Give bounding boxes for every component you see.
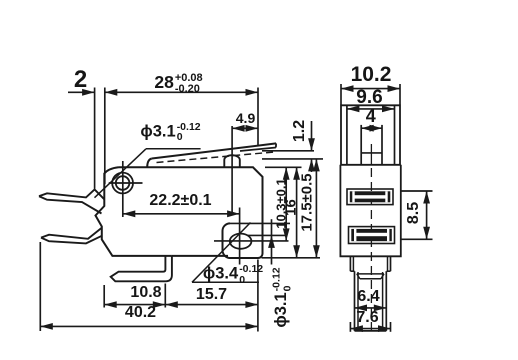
dimension label 15.7 (112, 287, 312, 303)
dimension label phi3.4 -0.12/0 (83, 264, 383, 285)
center line segment in plunger (370, 144, 372, 164)
ext line body top extended right (10.3/16 upper ref) (265, 166, 302, 168)
dim 6.4 line with arrows (355, 307, 387, 309)
dim 10.8 line with arrows (104, 304, 165, 306)
dimension label 22.2+/-0.1 (81, 193, 281, 209)
dim 40.2 ext left (terminal tips) (39, 242, 41, 331)
bottom terminal sides (354, 271, 356, 331)
bottom terminal bottom edge (355, 330, 387, 332)
dim 8.5 line with arrows (426, 191, 428, 239)
dimension label 9.6 (270, 88, 470, 107)
dim 10.3 line with arrows (285, 167, 287, 241)
switch body (side view outline) (119, 167, 263, 258)
dim 15.7 ext right (body right ext) (257, 260, 259, 332)
dim 9.6 line with arrows (347, 108, 395, 110)
lever arm (hinge lever) top edge (152, 143, 276, 158)
phi3.1 vertical dim line with up arrow (271, 219, 273, 264)
terminal blade lower-left, bottom edge (41, 236, 102, 244)
terminal block 2 outline (349, 227, 395, 244)
dimension label 17.5+/-0.5 (300, 102, 315, 302)
terminal socket mouth top (357, 273, 384, 275)
dim 1.2 lower arrow (311, 159, 313, 172)
terminal block 1 outline (347, 189, 393, 205)
dimension label 4.9 (146, 111, 346, 125)
hole1 outer ring (112, 173, 133, 194)
leader line for phi3.1 label (95, 149, 147, 198)
ext line lever tip top (1.2 upper ref) (262, 150, 314, 152)
lever underside dashed line (157, 152, 275, 163)
lever tip end (275, 143, 277, 147)
terminal blade upper-left, top edge (39, 189, 104, 199)
terminal block 1 dark fill (350, 191, 391, 202)
dim 10.2 ext right (399, 84, 401, 105)
dim 7.6 ext right (390, 322, 392, 332)
terminal block 2 dark fill (351, 229, 392, 241)
lower boss inner walls (352, 256, 354, 271)
dimension label 8.5 (406, 113, 422, 313)
dimension label 16 (284, 108, 299, 308)
dimension label 1.2 (292, 31, 308, 231)
dim 8.5 ext bottom (402, 238, 433, 240)
body bottom edge under ear (229, 257, 258, 259)
phi3.1 label shelf (146, 148, 201, 150)
hole2 crosshair horizontal / 10.3 reference (214, 240, 289, 242)
bottom L-shaped terminal (111, 256, 172, 281)
boss bottom shoulders (350, 270, 354, 272)
dimension label 6.4 (269, 289, 469, 305)
terminal socket mouth chamfers (357, 274, 360, 279)
hole2 crosshair vertical (239, 208, 241, 265)
dim 7.6 line with arrows (350, 328, 390, 330)
terminal block 2 end slits (354, 229, 356, 241)
dim 10.8 ext left (from blade tip) (103, 285, 105, 308)
dimension label 10.3+/-0.1 (274, 104, 287, 304)
dim 10.2 line with arrows (341, 88, 400, 90)
dim 2 extension line right (body left edge ext) (104, 88, 106, 185)
lever left end cap (147, 159, 152, 167)
dim 8.5 ext top (402, 190, 433, 192)
terminal block 1 white slot (354, 195, 387, 198)
dimension label 7.6 (268, 310, 468, 326)
terminal blade lower-left, top edge (41, 228, 102, 239)
bottom terminal inner walls (357, 272, 359, 330)
housing inner walls 9.6 (346, 106, 348, 165)
dim 22.2 line with arrows (123, 213, 240, 215)
terminal block 1 end slits (352, 191, 354, 202)
dim 10.8/15.7 shared ext (terminal right side) (164, 284, 166, 308)
body parting seam line (340, 164, 400, 166)
dimension label 40.2 (41, 305, 241, 321)
leader line for phi3.4 label (192, 223, 251, 283)
plunger crossbar (361, 152, 382, 154)
dim 28 line with arrows (105, 91, 258, 93)
dimension label 10.2 (271, 64, 471, 85)
dim 7.6 ext left (349, 322, 351, 332)
lower boss section sides (349, 256, 351, 271)
body left/bottom outline (96, 167, 172, 256)
ext line y235 reference (248, 234, 288, 236)
dim 15.7 line with arrows (165, 304, 258, 306)
dim 16 line with arrows (296, 167, 298, 257)
plunger walls (360, 125, 362, 165)
dimension label phi3.1 -0.12/0 (21, 122, 321, 143)
dim 4 line with arrows (361, 127, 382, 129)
mounting hole upper-left phi3.1 (116, 176, 130, 190)
dim 4.9 ext left (231, 126, 233, 214)
terminal block 2 white slot (355, 233, 388, 236)
terminal socket mouth bottom (360, 278, 381, 280)
dim 40.2 line with arrows (40, 325, 258, 327)
dim 17.5 line with arrows (315, 159, 317, 258)
body bottom edge right segment (172, 255, 228, 257)
hole1 crosshair horizontal (109, 182, 143, 184)
terminal blade upper-left, bottom edge (39, 196, 102, 213)
dimension label 10.8 (46, 285, 246, 301)
dim 2 extension line left (94, 88, 96, 189)
dim 1.2 upper arrow (311, 121, 313, 151)
ext line y223 reference (230, 222, 290, 224)
end view upper housing box (341, 105, 400, 165)
mounting hole lower-right phi3.4 (230, 234, 252, 249)
plunger button bump on body top (224, 155, 240, 167)
hole1 crosshair vertical (122, 161, 124, 217)
center dashed line (370, 168, 372, 330)
main body box of end view (340, 165, 400, 256)
dim 28 extension right (body right edge ext) (257, 88, 259, 147)
ext line lever tip bottom (1.2 lower / 17.5 upper ref) (262, 158, 323, 160)
dimension label phi3.1 -0.12/0 (272, 148, 293, 360)
dim 2 line + outside arrow (68, 91, 95, 93)
dimension label 4 (271, 107, 471, 125)
phi3.4 label shelf (192, 281, 259, 283)
dim 4.9 line with arrows (232, 127, 258, 129)
dimension label 28 +0.08/-0.20 (29, 73, 329, 95)
dim 10.2 ext left (340, 84, 342, 105)
ext line bottom reference (16/17.5 lower ref) (262, 257, 321, 259)
lever underside solid near tip (240, 148, 276, 152)
dimension label 2 (0, 68, 181, 92)
